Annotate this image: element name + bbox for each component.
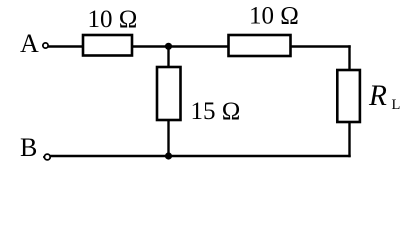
svg-text:10 Ω: 10 Ω xyxy=(249,3,299,30)
wire A to R1 xyxy=(48,45,82,47)
wire node down to R3 xyxy=(167,47,169,68)
resistor R3 15 ohm (vertical box) xyxy=(157,67,181,120)
node junction dot top xyxy=(165,43,172,50)
terminal B stub xyxy=(43,156,45,158)
wire R2 right to corner xyxy=(290,45,351,47)
svg-text:15 Ω: 15 Ω xyxy=(191,98,241,125)
wire R1 to node/junction to R2 xyxy=(132,45,228,47)
svg-text:A: A xyxy=(20,29,39,58)
svg-text:10 Ω: 10 Ω xyxy=(88,6,138,33)
resistor R2 10 ohm (box) xyxy=(229,35,291,56)
node junction dot bottom xyxy=(165,152,172,159)
svg-text:R: R xyxy=(368,80,387,112)
terminal A stub xyxy=(42,45,44,47)
resistor RL (vertical box) xyxy=(337,70,360,122)
terminal B (open circle) xyxy=(44,154,50,160)
wire R3 down to bottom wire xyxy=(167,120,169,156)
terminal A (open circle) xyxy=(43,43,48,48)
bottom wire B to corner xyxy=(50,155,351,157)
svg-text:L: L xyxy=(392,97,401,113)
wire RL down to bottom corner xyxy=(348,122,350,157)
svg-text:B: B xyxy=(20,133,37,162)
wire corner down to RL xyxy=(348,45,350,70)
resistor R1 10 ohm (box) xyxy=(83,35,132,56)
